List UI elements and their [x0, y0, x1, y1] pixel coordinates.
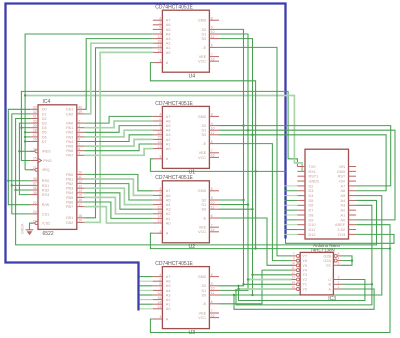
svg-text:16: 16	[211, 57, 215, 61]
svg-text:VCC: VCC	[198, 316, 206, 320]
wire branch RS1	[12, 184, 31, 186]
svg-text:A5: A5	[166, 124, 171, 128]
wire net D1/RS1/CS1 left bus	[12, 114, 31, 214]
svg-text:15: 15	[78, 194, 82, 198]
svg-text:A5: A5	[166, 28, 171, 32]
svg-text:S1: S1	[202, 289, 207, 293]
svg-text:D4: D4	[309, 194, 314, 198]
svg-text:7: 7	[211, 53, 213, 57]
svg-text:A2: A2	[166, 212, 171, 216]
svg-text:PB4: PB4	[66, 191, 73, 195]
svg-text:D1: D1	[42, 112, 47, 116]
svg-text:A1: A1	[166, 303, 171, 307]
svg-text:12: 12	[157, 35, 161, 39]
svg-text:16: 16	[78, 198, 82, 202]
svg-text:6522: 6522	[43, 231, 54, 237]
svg-text:D13: D13	[338, 233, 345, 237]
svg-text:15: 15	[157, 136, 161, 140]
svg-text:10: 10	[211, 287, 215, 291]
svg-text:5: 5	[159, 282, 161, 286]
svg-text:PA4: PA4	[66, 140, 73, 144]
svg-text:12: 12	[78, 180, 82, 184]
svg-text:A: A	[166, 157, 169, 161]
wire net /CS2 to ground	[30, 223, 34, 230]
svg-text:3: 3	[159, 59, 161, 63]
wire net D3/RS3 left bus	[19, 123, 30, 195]
svg-text:7: 7	[293, 252, 295, 256]
svg-text:8: 8	[211, 273, 213, 277]
wire net D0/RS0/RW left bus	[8, 109, 30, 204]
svg-text:9: 9	[211, 122, 213, 126]
svg-text:VEE: VEE	[199, 55, 207, 59]
svg-text:12: 12	[157, 291, 161, 295]
svg-text:A1: A1	[166, 217, 171, 221]
svg-text:A1: A1	[166, 46, 171, 50]
IC U3 CD74HCT4051E analog multiplexer	[153, 261, 219, 336]
wire net U1 common A to bus	[150, 159, 287, 172]
svg-text:A2: A2	[341, 209, 346, 213]
svg-text:3.3V: 3.3V	[337, 228, 345, 232]
wire net U3 -E to Y4	[219, 270, 292, 304]
svg-text:/RES: /RES	[42, 150, 51, 154]
wire bus PA0-PA7 to U1 inputs staircase	[84, 116, 152, 123]
svg-text:A2: A2	[166, 42, 171, 46]
svg-text:A0: A0	[166, 51, 171, 55]
svg-text:A: A	[166, 232, 169, 236]
svg-text:10: 10	[291, 261, 295, 265]
svg-text:A4: A4	[166, 203, 171, 207]
wire net C to U3 S2 row	[239, 280, 365, 301]
svg-text:D4: D4	[42, 126, 47, 130]
svg-text:11: 11	[291, 266, 295, 270]
svg-text:21: 21	[33, 166, 37, 170]
svg-text:U2: U2	[189, 244, 196, 250]
svg-text:A5: A5	[166, 284, 171, 288]
svg-text:14: 14	[157, 140, 161, 144]
wire net CA1 to U4.A3	[84, 39, 152, 110]
svg-text:25: 25	[33, 157, 37, 161]
svg-text:-E: -E	[202, 216, 206, 220]
svg-text:PB7: PB7	[66, 205, 73, 209]
svg-text:S1: S1	[202, 129, 207, 133]
svg-text:-E: -E	[202, 302, 206, 306]
wire net PHI2 long wire to Nano TX0	[21, 91, 297, 166]
svg-text:10: 10	[211, 30, 215, 34]
svg-text:A6: A6	[341, 189, 346, 193]
svg-text:Y1: Y1	[302, 283, 307, 287]
svg-text:Y3: Y3	[302, 273, 307, 277]
svg-text:CB2: CB2	[66, 221, 73, 225]
svg-text:VIN: VIN	[339, 165, 346, 169]
IC Arduino Nano module	[297, 149, 356, 252]
svg-text:A4: A4	[166, 289, 171, 293]
svg-text:14: 14	[157, 300, 161, 304]
svg-text:15: 15	[157, 39, 161, 43]
svg-text:IC4: IC4	[43, 99, 51, 105]
svg-text:GND: GND	[337, 170, 346, 174]
svg-text:/IRQ: /IRQ	[42, 168, 50, 172]
svg-text:3: 3	[159, 229, 161, 233]
wire long horizontal to Nano RX1	[25, 96, 302, 172]
svg-text:+5V: +5V	[338, 179, 345, 183]
junction S0 at U1/U2	[219, 134, 253, 136]
svg-text:D5: D5	[309, 199, 314, 203]
svg-text:33: 33	[33, 106, 37, 110]
svg-text:5: 5	[159, 196, 161, 200]
svg-text:A1: A1	[166, 142, 171, 146]
wire bus U3 inputs short stubs	[140, 276, 153, 278]
svg-text:4: 4	[159, 113, 161, 117]
svg-text:G1: G1	[326, 264, 331, 268]
wire net U1 -E to Y6	[219, 144, 292, 261]
junction S1 at U1/U2	[219, 129, 248, 131]
svg-text:39: 39	[78, 110, 82, 114]
svg-text:5: 5	[159, 26, 161, 30]
svg-text:14: 14	[157, 215, 161, 219]
wire net U3 S0 branch to Nano A5	[253, 196, 382, 295]
svg-text:PB1: PB1	[66, 177, 73, 181]
svg-text:R/W: R/W	[42, 203, 50, 207]
svg-text:PA5: PA5	[66, 145, 73, 149]
svg-text:18: 18	[78, 214, 82, 218]
svg-text:Y0: Y0	[302, 287, 307, 291]
svg-text:D5: D5	[42, 131, 47, 135]
svg-text:9: 9	[293, 257, 295, 261]
svg-text:23: 23	[33, 219, 37, 223]
svg-text:D8: D8	[309, 213, 314, 217]
svg-text:13: 13	[291, 276, 295, 280]
svg-text:7: 7	[211, 223, 213, 227]
svg-text:13: 13	[78, 184, 82, 188]
svg-text:12: 12	[157, 205, 161, 209]
svg-text:CB1: CB1	[66, 216, 73, 220]
svg-text:10: 10	[211, 201, 215, 205]
svg-text:8: 8	[78, 147, 80, 151]
IC U1 CD74HCT4051E analog multiplexer	[153, 101, 219, 176]
svg-text:RX1: RX1	[309, 170, 316, 174]
svg-text:13: 13	[157, 49, 161, 53]
svg-text:TX0: TX0	[309, 165, 316, 169]
svg-text:A7: A7	[341, 184, 346, 188]
svg-text:A2: A2	[166, 138, 171, 142]
svg-text:9: 9	[211, 26, 213, 30]
svg-text:13: 13	[157, 305, 161, 309]
svg-text:31: 31	[33, 115, 37, 119]
wire net Y1	[244, 283, 292, 285]
svg-text:D12: D12	[309, 233, 316, 237]
svg-text:S2: S2	[202, 284, 207, 288]
svg-text:15: 15	[291, 285, 295, 289]
svg-text:VCC: VCC	[198, 156, 206, 160]
svg-text:1: 1	[159, 30, 161, 34]
junction commons chain	[254, 170, 256, 172]
svg-text:D2: D2	[42, 117, 47, 121]
svg-text:A7: A7	[166, 275, 171, 279]
wire net U2 -E to Y5	[219, 218, 292, 265]
svg-text:GND: GND	[198, 189, 207, 193]
svg-text:G2A: G2A	[323, 259, 331, 263]
svg-text:12: 12	[291, 271, 295, 275]
svg-text:RS2: RS2	[42, 188, 49, 192]
svg-text:AREF: AREF	[335, 223, 346, 227]
IC IC3 74HCT138N decoder	[291, 252, 341, 302]
svg-text:2: 2	[159, 277, 161, 281]
svg-text:A: A	[166, 61, 169, 65]
svg-text:1: 1	[159, 126, 161, 130]
svg-text:-E: -E	[202, 46, 206, 50]
svg-text:29: 29	[33, 124, 37, 128]
svg-text:4: 4	[159, 187, 161, 191]
svg-text:11: 11	[211, 291, 215, 295]
svg-text:2: 2	[78, 119, 80, 123]
svg-text:24: 24	[33, 210, 37, 214]
svg-text:2: 2	[159, 117, 161, 121]
svg-text:D11: D11	[309, 228, 316, 232]
svg-text:37: 37	[33, 182, 37, 186]
svg-text:4: 4	[159, 273, 161, 277]
svg-text:5: 5	[78, 133, 80, 137]
svg-text:-E: -E	[202, 142, 206, 146]
wire net Y0	[239, 288, 292, 290]
svg-text:A0: A0	[166, 221, 171, 225]
IC U4 CD74HCT4051E analog multiplexer	[153, 5, 219, 80]
svg-text:14: 14	[78, 189, 82, 193]
svg-text:Y7: Y7	[302, 254, 307, 258]
svg-text:S2: S2	[202, 28, 207, 32]
svg-text:5: 5	[159, 122, 161, 126]
wire net CA2 to U4.A2	[84, 43, 152, 114]
svg-text:7: 7	[211, 309, 213, 313]
svg-text:S2: S2	[202, 198, 207, 202]
svg-text:G2B: G2B	[323, 254, 331, 258]
svg-text:7: 7	[78, 142, 80, 146]
svg-text:9: 9	[78, 152, 80, 156]
svg-text:S2: S2	[202, 124, 207, 128]
svg-text:Y5: Y5	[302, 264, 307, 268]
wire net CB2 to U4.A0	[84, 52, 152, 222]
svg-text:6: 6	[338, 261, 340, 265]
wire net S0 bus vertical	[219, 39, 253, 295]
svg-text:PHI2: PHI2	[43, 159, 51, 163]
svg-text:22: 22	[33, 201, 37, 205]
wire net CB1 to U4.A1	[84, 48, 152, 218]
wire net U2 common A to Nano AREF	[150, 225, 390, 249]
wire net S1 bus vertical	[219, 34, 248, 290]
svg-text:A5: A5	[341, 194, 346, 198]
svg-text:A4: A4	[166, 32, 171, 36]
svg-text:VEE: VEE	[199, 151, 207, 155]
svg-text:19: 19	[78, 219, 82, 223]
svg-text:5: 5	[338, 252, 340, 256]
svg-text:A6: A6	[166, 119, 171, 123]
svg-text:13: 13	[157, 145, 161, 149]
svg-text:A5: A5	[166, 198, 171, 202]
svg-text:RST1: RST1	[309, 175, 319, 179]
svg-text:32: 32	[33, 110, 37, 114]
svg-text:D0: D0	[42, 108, 47, 112]
svg-text:PA1: PA1	[66, 126, 73, 130]
svg-text:PB2: PB2	[66, 182, 73, 186]
svg-text:1: 1	[338, 285, 340, 289]
svg-text:IC3: IC3	[328, 296, 336, 302]
wire net S1 branch to Nano A0	[248, 130, 395, 220]
wire branch D6	[25, 136, 30, 138]
svg-text:Y2: Y2	[302, 278, 307, 282]
svg-text:S0: S0	[202, 208, 207, 212]
svg-text:A3: A3	[341, 204, 346, 208]
svg-text:11: 11	[211, 35, 215, 39]
wire net Y2	[248, 279, 292, 281]
svg-text:CA1: CA1	[66, 108, 73, 112]
svg-text:4: 4	[338, 257, 340, 261]
wire net U4 -E to Y7	[219, 47, 292, 256]
svg-text:8: 8	[211, 187, 213, 191]
svg-text:A6: A6	[166, 23, 171, 27]
svg-text:1: 1	[159, 201, 161, 205]
svg-text:PB6: PB6	[66, 200, 73, 204]
svg-text:U3: U3	[189, 330, 196, 336]
svg-text:14: 14	[291, 280, 295, 284]
svg-text:4: 4	[78, 129, 80, 133]
svg-text:A3: A3	[166, 208, 171, 212]
wire net S2 bus vertical	[219, 29, 244, 285]
svg-text:3: 3	[78, 124, 80, 128]
svg-text:12: 12	[157, 131, 161, 135]
svg-text:3: 3	[159, 315, 161, 319]
svg-text:38: 38	[33, 177, 37, 181]
svg-text:11: 11	[78, 175, 82, 179]
wire net U4 common A down the commons chain	[150, 63, 255, 249]
svg-text:A7: A7	[166, 19, 171, 23]
svg-text:A3: A3	[166, 293, 171, 297]
svg-text:VEE: VEE	[199, 226, 207, 230]
wire branch /RES	[19, 150, 33, 152]
svg-text:3: 3	[159, 155, 161, 159]
svg-text:6: 6	[211, 140, 213, 144]
svg-text:10: 10	[78, 171, 82, 175]
svg-text:6: 6	[78, 138, 80, 142]
svg-text:PA7: PA7	[66, 154, 73, 158]
junction S2 at U1/U2	[219, 125, 244, 127]
bus blue Nano D pins to U3 inputs	[6, 4, 286, 311]
wire net D13 under Nano	[286, 234, 395, 243]
svg-text:A6: A6	[166, 194, 171, 198]
svg-text:10: 10	[211, 126, 215, 130]
svg-text:16: 16	[211, 154, 215, 158]
svg-text:RS3: RS3	[42, 193, 49, 197]
svg-text:S0: S0	[202, 37, 207, 41]
svg-text:30: 30	[33, 119, 37, 123]
svg-text:Y6: Y6	[302, 259, 307, 263]
svg-text:A4: A4	[341, 199, 346, 203]
svg-text:A3: A3	[166, 133, 171, 137]
wire net U4.A4 long wire down to /IRQ	[25, 34, 153, 170]
IC U2 CD74HCT4051E analog multiplexer	[153, 175, 219, 250]
svg-text:GND: GND	[198, 275, 207, 279]
svg-text:34: 34	[33, 148, 37, 152]
svg-text:D7: D7	[42, 140, 47, 144]
svg-text:A: A	[166, 317, 169, 321]
svg-text:15: 15	[157, 296, 161, 300]
svg-text:D9: D9	[309, 218, 314, 222]
svg-text:U4: U4	[189, 73, 196, 79]
svg-text:A0: A0	[166, 307, 171, 311]
svg-text:PB0: PB0	[66, 173, 73, 177]
svg-text:PA2: PA2	[66, 131, 73, 135]
svg-text:9: 9	[211, 196, 213, 200]
wire net B loop to U3 S1 row and up to Nano A3	[236, 205, 372, 305]
svg-text:A1: A1	[341, 213, 346, 217]
wire bus PB0-PB7 to U2 inputs staircase	[84, 174, 152, 190]
svg-text:S1: S1	[202, 203, 207, 207]
wire bus Nano D2-D12 stubs	[285, 185, 298, 187]
svg-text:S1: S1	[202, 32, 207, 36]
wire branch D7	[25, 141, 30, 143]
svg-text:11: 11	[211, 131, 215, 135]
svg-text:6: 6	[211, 44, 213, 48]
svg-text:A2: A2	[166, 298, 171, 302]
svg-text:2: 2	[159, 192, 161, 196]
svg-text:CS1: CS1	[42, 212, 49, 216]
svg-text:D10: D10	[309, 223, 316, 227]
svg-text:17: 17	[78, 203, 82, 207]
svg-text:D6: D6	[309, 204, 314, 208]
svg-text:35: 35	[33, 191, 37, 195]
wire net G2B G2A G1 tie	[341, 256, 352, 265]
svg-text:28: 28	[33, 129, 37, 133]
svg-text:A4: A4	[166, 129, 171, 133]
svg-text:RS1: RS1	[42, 184, 49, 188]
svg-text:Y4: Y4	[302, 268, 307, 272]
svg-text:27: 27	[33, 133, 37, 137]
svg-text:A6: A6	[166, 280, 171, 284]
ground GNDA	[21, 223, 34, 235]
wire net D2/RS2 left bus to bottom horizontal to Nano A4	[16, 119, 377, 245]
wire branch D5	[25, 131, 30, 133]
svg-text:GNDA: GNDA	[21, 223, 25, 234]
svg-text:D2: D2	[309, 184, 314, 188]
svg-text:6: 6	[211, 300, 213, 304]
svg-text:VCC: VCC	[198, 60, 206, 64]
svg-text:D6: D6	[42, 135, 47, 139]
svg-text:2: 2	[338, 280, 340, 284]
wire net Y3	[253, 274, 292, 276]
svg-text:CA2: CA2	[66, 112, 73, 116]
svg-text:40: 40	[78, 106, 82, 110]
wire branch RS0	[8, 180, 30, 182]
svg-text:C: C	[328, 278, 331, 282]
svg-text:D7: D7	[309, 209, 314, 213]
svg-text:4: 4	[159, 16, 161, 20]
svg-text:16: 16	[211, 228, 215, 232]
svg-text:6: 6	[211, 214, 213, 218]
svg-text:S0: S0	[202, 133, 207, 137]
svg-text:VEE: VEE	[199, 311, 207, 315]
svg-text:/CS2: /CS2	[42, 222, 50, 226]
wire branch RS2	[16, 189, 31, 191]
svg-text:A7: A7	[166, 189, 171, 193]
svg-text:8: 8	[211, 113, 213, 117]
svg-text:PB3: PB3	[66, 187, 73, 191]
svg-text:1: 1	[159, 287, 161, 291]
svg-text:PA0: PA0	[66, 122, 73, 126]
svg-text:S0: S0	[202, 293, 207, 297]
svg-text:8: 8	[211, 16, 213, 20]
svg-text:A0: A0	[166, 147, 171, 151]
svg-text:D3: D3	[309, 189, 314, 193]
svg-text:7: 7	[211, 149, 213, 153]
svg-text:36: 36	[33, 186, 37, 190]
